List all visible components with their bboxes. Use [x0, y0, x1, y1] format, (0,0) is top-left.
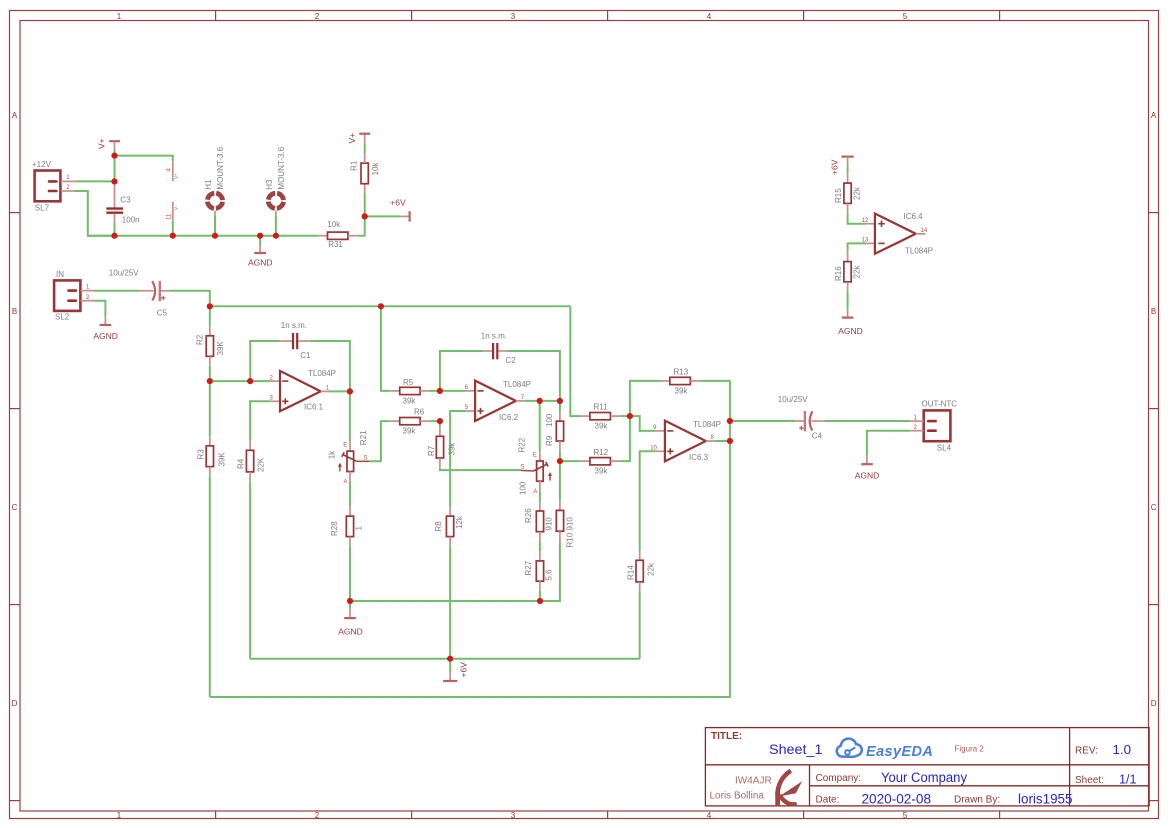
svg-text:10k: 10k: [371, 162, 380, 176]
wire R27 to AGND rail: [539, 591, 541, 601]
wire R16 to AGND: [847, 292, 849, 309]
node R22 E junction: [537, 398, 543, 404]
svg-text:C: C: [12, 503, 18, 512]
capacitor C1 1n s.m.: [280, 321, 311, 360]
wire input node down to R5: [381, 306, 390, 391]
node R27 junction: [537, 598, 543, 604]
node IC6.3 output junction: [727, 438, 733, 444]
node SL7 pin1 junction: [111, 178, 117, 184]
svg-text:V+: V+: [347, 133, 357, 144]
svg-text:OUT-NTC: OUT-NTC: [922, 400, 958, 409]
svg-text:IC6.3: IC6.3: [689, 453, 709, 462]
svg-text:V+: V+: [97, 138, 107, 149]
wire pin3 to R4: [250, 401, 270, 440]
mount hole H1: [204, 146, 225, 235]
wire R31 to +6V node: [358, 216, 365, 235]
svg-text:B: B: [12, 307, 17, 316]
wire C4 to SL4: [824, 420, 911, 422]
wire pin2 row: [210, 380, 271, 382]
wire output vertical down to feedback rail: [210, 421, 730, 697]
wire AGND rail: [350, 542, 560, 602]
wire R5 to pin6 node: [430, 390, 466, 392]
svg-text:39k: 39k: [403, 427, 417, 436]
resistor R14 22k: [627, 551, 656, 592]
wire R12 to pin9 node: [620, 416, 630, 461]
svg-text:C3: C3: [120, 196, 131, 205]
svg-text:Drawn By:: Drawn By:: [954, 795, 1000, 806]
op-amp IC6.1: [270, 369, 337, 412]
svg-text:R1: R1: [350, 160, 359, 171]
wire C2 feedback loop: [440, 351, 483, 391]
node H3 junction: [273, 233, 279, 239]
svg-text:R16: R16: [834, 266, 843, 281]
svg-text:1: 1: [355, 526, 364, 531]
svg-text:TL084P: TL084P: [905, 247, 933, 256]
svg-text:loris1955: loris1955: [1018, 792, 1073, 807]
wire R11 feed from input node: [570, 306, 580, 416]
wire SL4 pin2 to AGND: [867, 431, 910, 456]
resistor R15 22k: [834, 166, 861, 213]
ground AGND under R16: [838, 309, 863, 337]
svg-text:D: D: [12, 699, 18, 708]
svg-text:C5: C5: [157, 309, 168, 318]
svg-text:Sheet_1: Sheet_1: [769, 741, 823, 757]
op-amp IC6.2: [465, 380, 531, 422]
svg-text:R5: R5: [403, 378, 414, 387]
capacitor C5 10u/25V polarized: [109, 269, 170, 318]
svg-text:AGND: AGND: [93, 331, 118, 341]
svg-text:22k: 22k: [853, 265, 862, 279]
svg-text:R10: R10: [566, 532, 575, 547]
EasyEDA logo: [837, 739, 934, 760]
resistor R28 1: [330, 481, 364, 546]
node pin11 junction: [170, 233, 176, 239]
svg-text:1k: 1k: [328, 450, 337, 459]
wire IC6.1 out to node: [329, 390, 350, 392]
svg-text:39k: 39k: [595, 467, 609, 476]
gnd rail wire: [88, 235, 318, 237]
title block: [705, 728, 1149, 807]
ground AGND stub: [248, 236, 273, 268]
svg-text:SL4: SL4: [937, 444, 952, 453]
svg-text:39K: 39K: [216, 341, 225, 356]
node input junction: [207, 303, 213, 309]
svg-text:C2: C2: [506, 356, 517, 365]
svg-text:2: 2: [315, 12, 320, 21]
node IC6.1 output junction: [347, 388, 353, 394]
node R5 branch junction: [378, 303, 384, 309]
svg-text:AGND: AGND: [838, 326, 863, 336]
node AGND stub junction: [257, 233, 263, 239]
svg-text:E: E: [533, 453, 537, 459]
svg-text:100: 100: [545, 413, 554, 427]
svg-text:4: 4: [707, 811, 712, 820]
op-amp IC6.3: [650, 420, 721, 462]
svg-text:39k: 39k: [595, 422, 609, 431]
svg-text:10u/25V: 10u/25V: [778, 395, 808, 404]
svg-text:MOUNT-3.6: MOUNT-3.6: [216, 146, 225, 189]
capacitor C2 1n s.m.: [481, 332, 516, 366]
svg-text:R14: R14: [627, 565, 636, 580]
svg-text:A: A: [1151, 111, 1157, 120]
svg-text:R28: R28: [330, 521, 339, 536]
svg-text:1n s.m.: 1n s.m.: [481, 332, 507, 341]
wire R13 feedback loop: [630, 381, 660, 416]
svg-text:22k: 22k: [853, 186, 862, 200]
wire IC6.3 out: [714, 440, 730, 442]
wire SL7 pin2 down to gnd rail: [75, 191, 115, 236]
resistor R5 39k: [390, 378, 430, 406]
wire SL7 pin1 to V+ node: [75, 180, 115, 182]
svg-text:2020-02-08: 2020-02-08: [862, 792, 932, 807]
svg-text:A: A: [344, 480, 348, 486]
wire R28 to AGND node: [349, 546, 351, 601]
svg-text:910: 910: [545, 517, 554, 531]
svg-text:AGND: AGND: [248, 258, 273, 268]
resistor R4 22K: [237, 441, 266, 482]
svg-text:IN: IN: [56, 270, 64, 279]
svg-text:R31: R31: [328, 240, 343, 249]
trimmer R22 100: [518, 401, 553, 495]
wire R8 to +6V rail: [449, 546, 451, 658]
wire C2 to output node: [508, 351, 560, 401]
power flag V+: [97, 138, 121, 150]
ground AGND at SL4: [855, 455, 880, 480]
svg-text:1/1: 1/1: [1119, 772, 1137, 787]
svg-text:C: C: [1151, 503, 1157, 512]
wire SL2 pin1 to C5: [95, 290, 140, 292]
svg-text:39k: 39k: [403, 397, 417, 406]
wire V+ to C3 top node: [114, 150, 116, 182]
svg-text:TITLE:: TITLE:: [711, 731, 742, 742]
svg-text:R4: R4: [237, 458, 246, 469]
svg-text:R7: R7: [427, 445, 436, 456]
wire R6 to R7 node: [430, 420, 440, 422]
svg-text:AGND: AGND: [855, 471, 880, 481]
svg-text:4: 4: [707, 12, 712, 21]
node H1 junction: [212, 233, 218, 239]
svg-text:R9: R9: [545, 435, 554, 446]
K logo: [775, 771, 802, 807]
svg-text:Loris Bollina: Loris Bollina: [710, 791, 765, 802]
svg-text:H3: H3: [265, 179, 274, 190]
svg-text:IC6.1: IC6.1: [304, 403, 324, 412]
connector SL2: [54, 270, 94, 322]
capacitor C4 10u/25V polarized: [778, 395, 824, 441]
wire R2 to pin2 node: [209, 366, 211, 381]
node pin2 junction: [247, 378, 253, 384]
svg-text:A: A: [533, 489, 537, 495]
resistor R7 39k: [427, 421, 457, 468]
svg-text:R21: R21: [359, 430, 368, 445]
resistor R3 39K: [197, 381, 227, 476]
node R8 +6V junction: [447, 656, 453, 662]
wire R14 to +6V rail: [639, 592, 641, 659]
svg-text:1.0: 1.0: [1113, 742, 1132, 757]
svg-text:14: 14: [921, 228, 928, 234]
svg-text:V-: V-: [174, 205, 179, 210]
svg-text:H1: H1: [204, 179, 213, 190]
svg-text:2: 2: [315, 811, 320, 820]
power flag V+ above R1: [347, 133, 370, 154]
connector SL4: [910, 400, 957, 453]
power flag +6V bottom: [443, 659, 468, 681]
svg-text:100n: 100n: [122, 216, 140, 225]
node R9/R10/R12 junction: [557, 458, 563, 464]
wire R11 to node: [620, 415, 630, 417]
node R5/C2 junction: [437, 388, 443, 394]
svg-text:R8: R8: [434, 521, 443, 532]
connector SL7: [32, 160, 75, 213]
resistor R8 12k: [434, 507, 464, 547]
mount hole H3: [265, 146, 286, 235]
node R2 bottom junction: [207, 378, 213, 384]
ground AGND under SL2: [93, 301, 118, 341]
wire C3 to gnd rail: [114, 223, 116, 236]
svg-text:Company:: Company:: [816, 773, 862, 784]
svg-text:5: 5: [903, 811, 908, 820]
resistor R27 5,6: [524, 541, 554, 591]
svg-text:+12V: +12V: [32, 160, 52, 169]
op-amp IC6.4: [862, 212, 933, 256]
svg-text:D: D: [1151, 699, 1157, 708]
node V+ junction: [111, 153, 117, 159]
svg-text:+6V: +6V: [459, 662, 469, 678]
capacitor C3: [106, 181, 139, 224]
node IC6.3 pin9 junction: [627, 413, 633, 419]
wire C4 row: [730, 420, 795, 422]
svg-text:1: 1: [117, 811, 122, 820]
svg-text:Date:: Date:: [816, 795, 840, 806]
resistor R16 22k: [834, 252, 861, 292]
wire pin9 jog: [630, 416, 656, 431]
svg-text:100: 100: [519, 481, 528, 495]
svg-text:C1: C1: [300, 351, 311, 360]
svg-text:10: 10: [650, 445, 657, 451]
svg-text:11: 11: [167, 213, 173, 220]
svg-text:MOUNT-3.6: MOUNT-3.6: [277, 146, 286, 189]
svg-text:910: 910: [566, 517, 575, 531]
resistor R31 10k: [318, 220, 358, 249]
svg-text:SL7: SL7: [35, 204, 50, 213]
wire R15 to pin12: [848, 213, 867, 224]
trimmer R21 1k: [328, 391, 370, 485]
resistor R13 39k: [660, 368, 700, 396]
wire IC6.2 out: [524, 400, 560, 402]
svg-text:39k: 39k: [675, 387, 689, 396]
svg-text:E: E: [343, 443, 347, 449]
svg-text:V+: V+: [174, 173, 179, 179]
svg-text:S: S: [521, 464, 525, 470]
wire R7 to R22 S: [440, 468, 521, 470]
power flag +6V top right: [830, 157, 854, 175]
svg-text:39K: 39K: [218, 452, 227, 467]
resistor R26 910: [524, 491, 554, 542]
svg-text:R3: R3: [197, 449, 206, 460]
svg-text:TL084P: TL084P: [503, 380, 531, 389]
wire V+ node to pin 4: [115, 156, 173, 162]
svg-text:TL084P: TL084P: [693, 420, 721, 429]
svg-text:1n s.m.: 1n s.m.: [281, 321, 307, 330]
svg-text:TL084P: TL084P: [308, 369, 336, 378]
svg-text:12k: 12k: [455, 515, 464, 529]
svg-text:Sheet:: Sheet:: [1075, 775, 1104, 786]
svg-text:+6V: +6V: [390, 198, 406, 208]
resistor R1 10k: [350, 154, 380, 217]
node C2/R9 junction: [557, 398, 563, 404]
svg-text:R15: R15: [834, 188, 843, 203]
resistor R9 100: [545, 401, 564, 451]
wire C5 to input node: [170, 291, 210, 307]
resistor R10 910: [556, 461, 574, 547]
svg-text:R13: R13: [674, 368, 689, 377]
junction dots layer: [111, 153, 733, 662]
svg-text:R6: R6: [414, 408, 425, 417]
svg-text:10k: 10k: [327, 220, 341, 229]
resistor R11 39k: [580, 403, 620, 431]
svg-text:REV:: REV:: [1075, 746, 1098, 757]
wire C1 feedback loop: [250, 341, 280, 381]
node C3 bottom: [111, 233, 117, 239]
svg-text:+6V: +6V: [830, 159, 840, 175]
node R6/R7 junction: [437, 418, 443, 424]
pin 11 (V-) of IC6: [167, 202, 179, 236]
svg-text:1: 1: [117, 12, 122, 21]
wire R4 to +6V rail: [249, 482, 251, 659]
wire R21 S to R6: [370, 421, 390, 461]
svg-text:S: S: [364, 455, 368, 461]
svg-text:IC6.2: IC6.2: [499, 413, 519, 422]
svg-text:SL2: SL2: [55, 313, 70, 322]
svg-text:B: B: [1151, 307, 1156, 316]
svg-text:10u/25V: 10u/25V: [109, 269, 139, 278]
svg-text:22k: 22k: [647, 562, 656, 576]
svg-text:Your Company: Your Company: [881, 770, 967, 785]
svg-text:5,6: 5,6: [545, 569, 554, 581]
svg-text:R11: R11: [594, 403, 609, 412]
wire pin10 from R14: [640, 451, 656, 550]
wire +6V rail: [250, 658, 640, 660]
node C4 branch junction: [727, 418, 733, 424]
resistor R12 39k: [580, 448, 620, 476]
svg-text:R22: R22: [518, 437, 527, 452]
wire pin5 down to R8: [450, 411, 466, 507]
net flag +6V: [365, 198, 410, 222]
resistor R6 39k: [390, 408, 430, 436]
svg-text:R12: R12: [594, 448, 609, 457]
wire input node main horizontal: [210, 305, 571, 307]
node R28 AGND junction: [347, 598, 353, 604]
wire pin13 to R16: [848, 243, 867, 252]
svg-text:R2: R2: [196, 334, 205, 345]
svg-text:EasyEDA: EasyEDA: [866, 744, 933, 760]
svg-text:39k: 39k: [448, 442, 457, 456]
wire R13 to output vertical: [700, 381, 730, 421]
svg-text:R26: R26: [524, 508, 533, 523]
svg-text:3: 3: [511, 811, 516, 820]
svg-text:IC6.4: IC6.4: [904, 212, 924, 221]
svg-text:C4: C4: [812, 432, 823, 441]
svg-text:AGND: AGND: [338, 627, 363, 637]
ground AGND under R28: [338, 601, 363, 637]
node +6V junction: [362, 213, 368, 219]
svg-text:22K: 22K: [257, 457, 266, 472]
svg-text:Figura 2: Figura 2: [955, 745, 985, 754]
resistor R2 39K: [196, 306, 226, 366]
wire C1 to output node: [310, 341, 350, 391]
wire R3 down to feedback rail: [209, 476, 211, 697]
svg-text:3: 3: [511, 12, 516, 21]
svg-text:5: 5: [903, 12, 908, 21]
svg-text:A: A: [12, 111, 18, 120]
svg-text:12: 12: [862, 218, 869, 224]
pin 4 (V+) of IC6: [167, 161, 179, 181]
wire R12 row: [560, 460, 580, 462]
wire R9 to R12 node: [559, 451, 561, 461]
svg-text:IW4AJR: IW4AJR: [735, 776, 772, 787]
svg-text:R27: R27: [524, 560, 533, 575]
